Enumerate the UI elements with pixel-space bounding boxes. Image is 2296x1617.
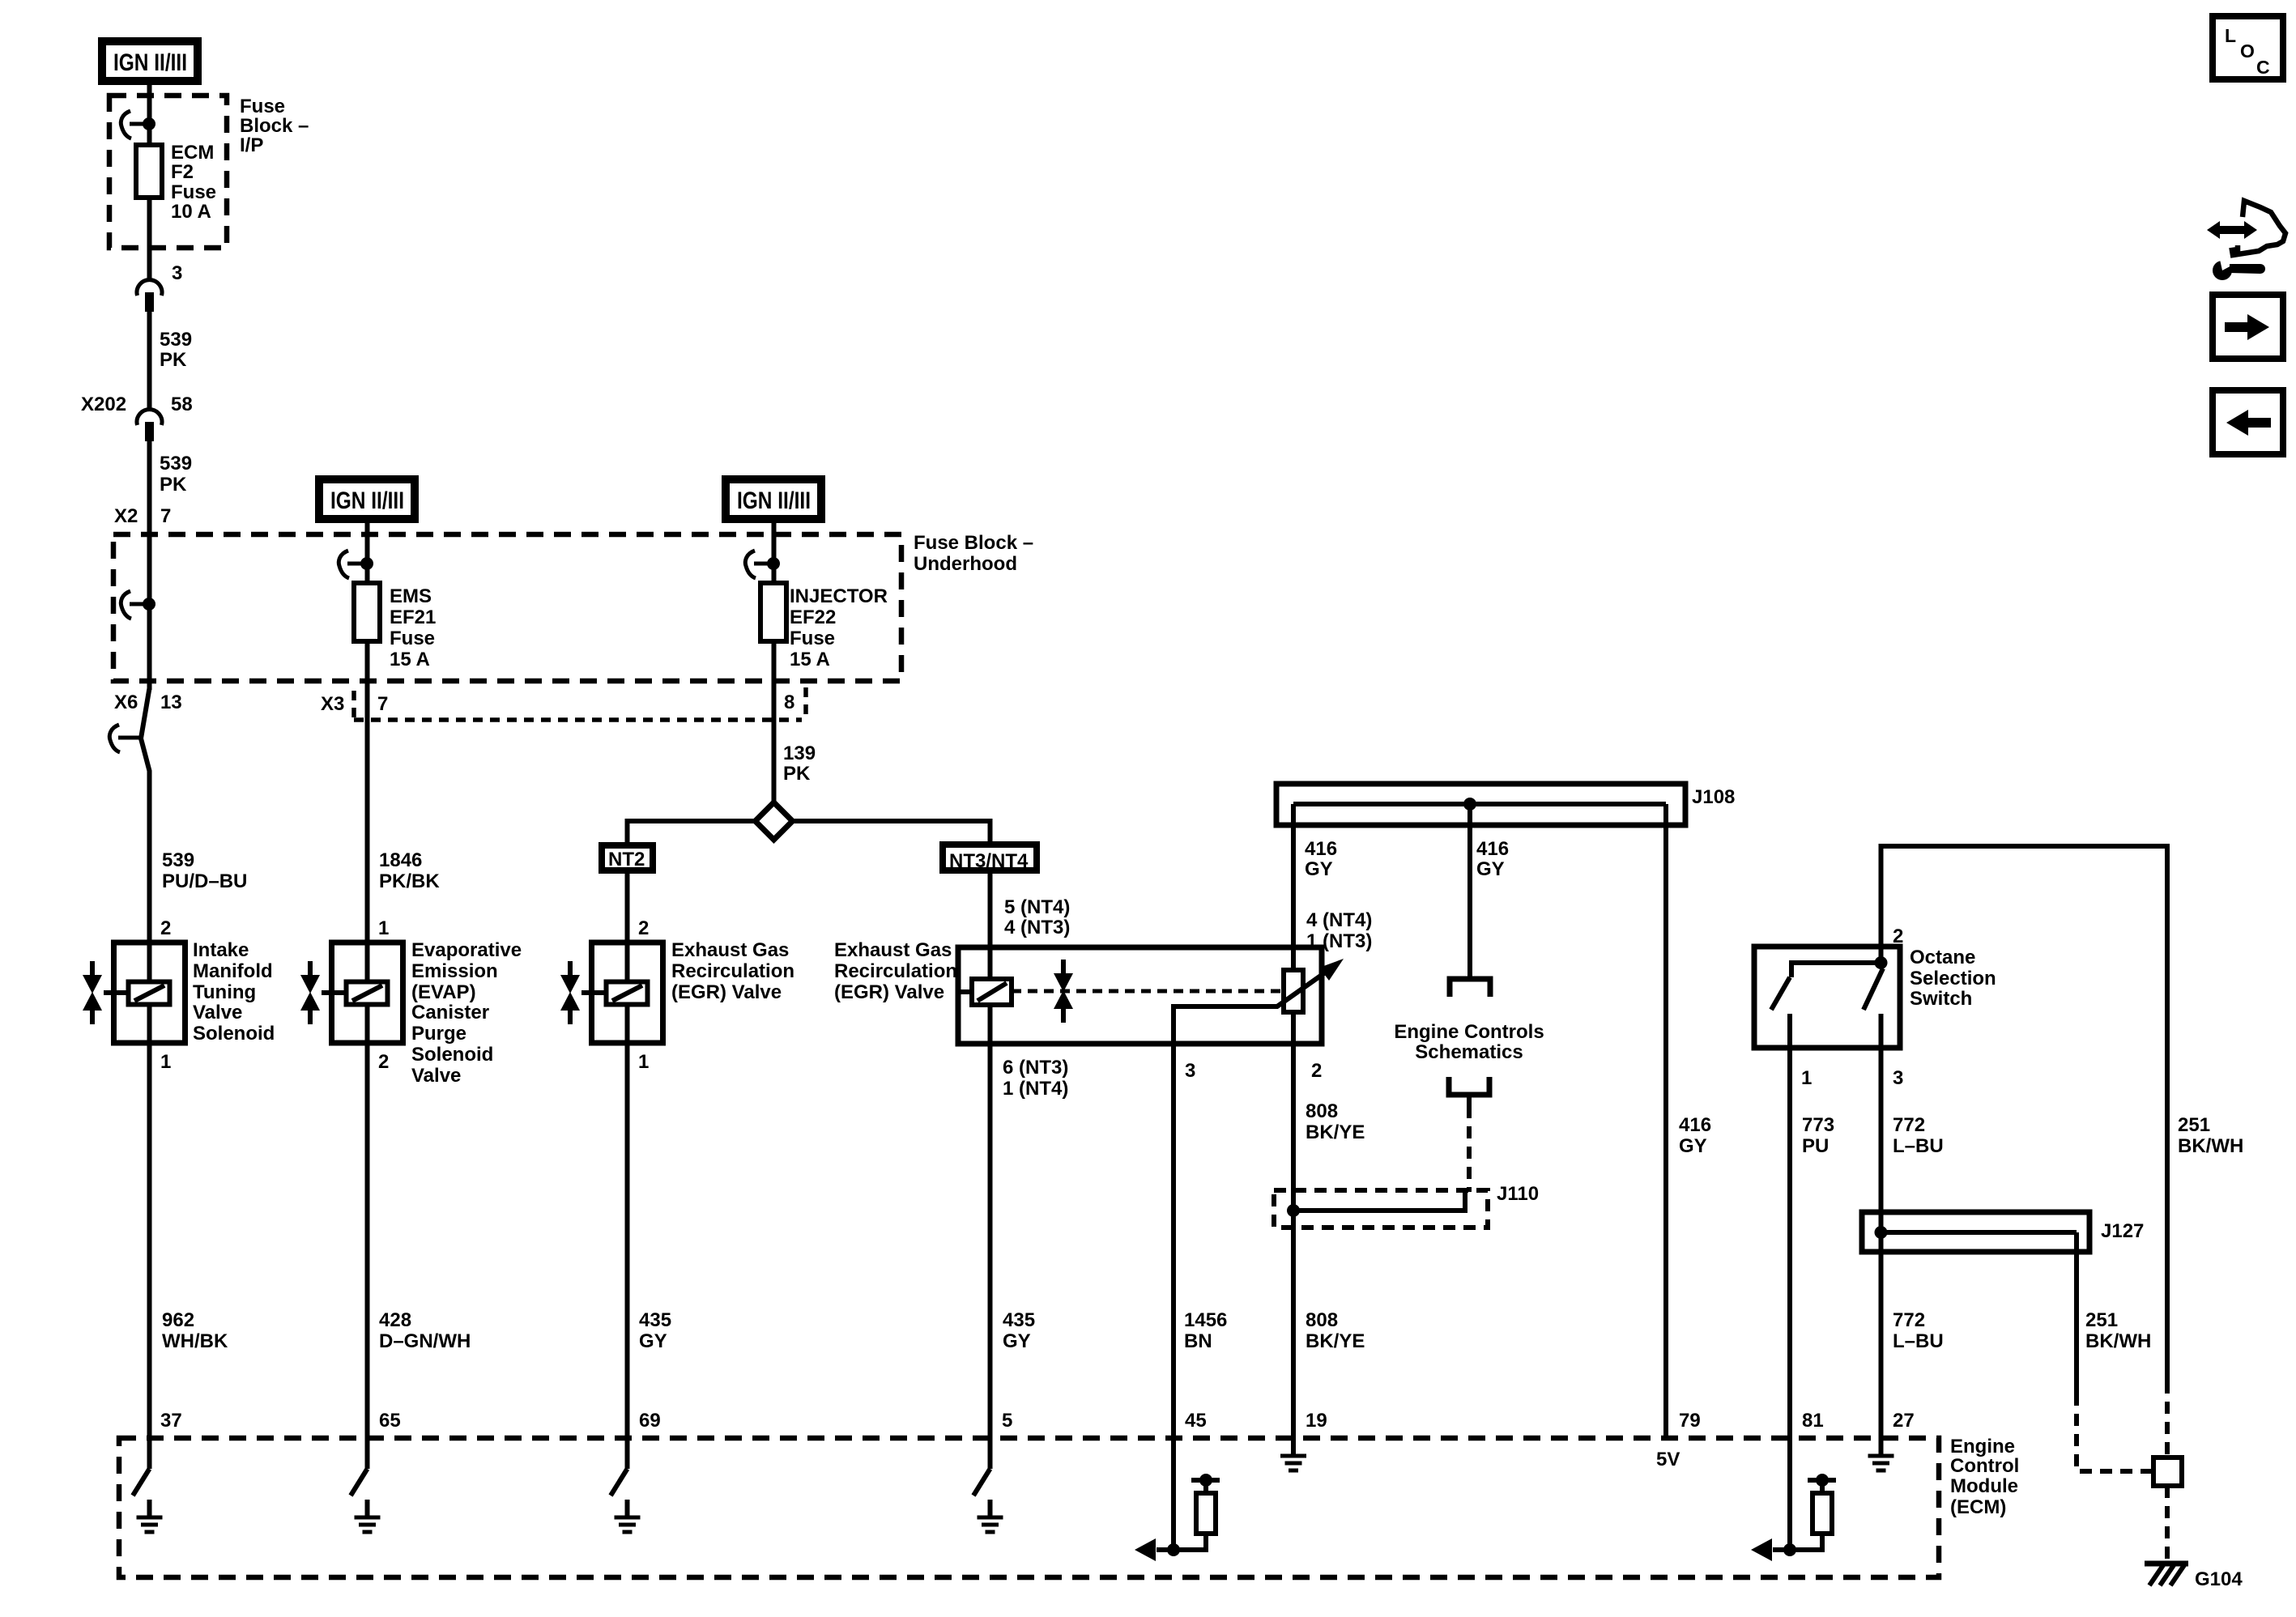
svg-text:J108: J108: [1692, 786, 1735, 808]
svg-text:1: 1: [638, 1051, 649, 1073]
svg-text:7: 7: [377, 693, 388, 715]
svg-text:Schematics: Schematics: [1415, 1041, 1523, 1063]
valve symbol (EGR left): [560, 961, 580, 1024]
wire label 539 PU/D-BU: [162, 849, 247, 892]
coil stub (intake): [104, 990, 130, 995]
svg-text:GY: GY: [639, 1330, 667, 1352]
dashed wire to J110: [1467, 1106, 1472, 1192]
svg-text:PK/BK: PK/BK: [379, 870, 440, 892]
wire NT2 to EGR valve pin 2: [625, 870, 630, 945]
Engine Control Module (ECM) dashed box: [119, 1438, 1939, 1577]
wire kink through X6: [141, 688, 150, 945]
splice diamond: [756, 802, 793, 840]
svg-text:45: 45: [1185, 1410, 1207, 1432]
svg-text:772: 772: [1893, 1114, 1925, 1136]
wire label 962 WH/BK: [162, 1309, 228, 1352]
wire into fuse F2: [147, 96, 152, 147]
svg-text:L–BU: L–BU: [1893, 1135, 1944, 1157]
svg-text:IGN II/III: IGN II/III: [113, 49, 187, 76]
svg-text:Engine Controls: Engine Controls: [1394, 1021, 1544, 1043]
ground splice square: [2153, 1457, 2182, 1486]
svg-text:Recirculation: Recirculation: [671, 960, 794, 982]
svg-text:15 A: 15 A: [390, 649, 430, 670]
octane selection switch box: [1754, 947, 1900, 1048]
svg-text:Solenoid: Solenoid: [411, 1044, 493, 1066]
ECM pin 19 internal ground: [1280, 1438, 1306, 1470]
wire splice to NT2 branch: [628, 821, 756, 845]
EGR valve (left) box: [592, 943, 663, 1043]
svg-text:J127: J127: [2101, 1220, 2144, 1242]
wire label 428 D-GN/WH: [379, 1309, 471, 1352]
adjust icon double arrow: [2207, 221, 2257, 239]
svg-text:(EGR) Valve: (EGR) Valve: [671, 981, 782, 1003]
fuse ECM F2 10A: [136, 145, 162, 198]
octane switch pin 2 riser and top loop wire: [1881, 846, 2168, 1381]
fuse EMS EF21 15A: [354, 583, 380, 641]
wire through intake solenoid down to ECM: [147, 945, 152, 1469]
svg-text:WH/BK: WH/BK: [162, 1330, 228, 1352]
coil (EGR NT3/NT4): [972, 979, 1012, 1005]
svg-text:I/P: I/P: [240, 134, 263, 156]
wire 416 GY from J108 right end down to ECM pin 79: [1663, 804, 1668, 1438]
wire from IGN box 2 into underhood box: [365, 523, 370, 585]
svg-text:F2: F2: [171, 161, 194, 183]
off-page clip (top) to engine controls schematics: [1450, 979, 1490, 997]
svg-text:Underhood: Underhood: [914, 553, 1017, 575]
svg-text:C: C: [2256, 57, 2270, 78]
wire J108 to engine controls schematics clip: [1467, 804, 1472, 978]
svg-text:416: 416: [1476, 838, 1509, 860]
wire splice to NT3/NT4 branch: [793, 821, 990, 845]
svg-text:PU: PU: [1802, 1135, 1829, 1157]
wiper wire from pin 3: [1174, 969, 1330, 1044]
svg-text:962: 962: [162, 1309, 194, 1331]
svg-text:8: 8: [784, 691, 794, 713]
svg-text:EF21: EF21: [390, 606, 436, 628]
wire through EGR (NT3/NT4) coil down to ECM pin 5: [988, 947, 993, 1469]
wiper arrowhead: [1319, 959, 1344, 981]
coil (intake): [129, 982, 170, 1005]
engine controls schematics label: [1394, 1021, 1544, 1063]
wire label 772 L-BU (lower): [1893, 1309, 1944, 1352]
svg-text:251: 251: [2085, 1309, 2118, 1331]
connector X3 pin 7 labels: [321, 693, 388, 715]
valve symbol (EVAP): [300, 961, 320, 1024]
wire label 1456 BN: [1184, 1309, 1227, 1352]
coil stub (EVAP): [322, 990, 347, 995]
splice bus J127: [1862, 1212, 2089, 1252]
ECM pin 81 internal arrow and resistor: [1751, 1474, 1836, 1561]
svg-text:10 A: 10 A: [171, 201, 211, 223]
svg-text:5V: 5V: [1656, 1449, 1680, 1470]
svg-text:2: 2: [160, 917, 171, 939]
svg-text:X6: X6: [114, 691, 138, 713]
svg-text:Control: Control: [1950, 1455, 2019, 1477]
EGR valve (NT3/NT4) box: [958, 947, 1322, 1044]
dashed wire to ground splice square (from J127): [2077, 1394, 2153, 1471]
svg-text:539: 539: [160, 329, 192, 351]
svg-text:INJECTOR: INJECTOR: [790, 585, 888, 607]
splice J110 dashed box: [1274, 1190, 1488, 1228]
ECM pin 37 internal switch blade and ground: [133, 1469, 163, 1532]
svg-text:Recirculation: Recirculation: [834, 960, 957, 982]
svg-text:Purge: Purge: [411, 1023, 466, 1045]
EVAP canister purge solenoid valve box: [332, 943, 403, 1043]
svg-text:5: 5: [1002, 1410, 1012, 1432]
dashed wire square to G104: [2165, 1486, 2170, 1563]
svg-text:PK: PK: [160, 349, 187, 371]
svg-text:2: 2: [378, 1051, 389, 1073]
wire label 773 PU: [1802, 1114, 1834, 1157]
svg-text:79: 79: [1679, 1410, 1701, 1432]
svg-text:15 A: 15 A: [790, 649, 830, 670]
wire from EF21 down through X3 to EVAP: [365, 641, 370, 945]
svg-text:GY: GY: [1476, 858, 1505, 880]
ECM pin 27 internal ground: [1868, 1438, 1894, 1470]
wire label 435 GY (left EGR): [639, 1309, 671, 1352]
svg-text:139: 139: [783, 743, 816, 764]
ECM pin 69 internal switch blade and ground: [611, 1469, 641, 1532]
ECM pin 65 internal switch blade and ground: [351, 1469, 381, 1532]
wire 772 L-BU pin 3 down through J127 to ECM pin 27: [1879, 1048, 1884, 1446]
wire through EGR valve (left) down to ECM: [625, 945, 630, 1469]
svg-text:EF22: EF22: [790, 606, 836, 628]
svg-text:539: 539: [160, 453, 192, 474]
fuse block internal hook (EMS): [339, 551, 373, 578]
svg-text:Canister: Canister: [411, 1002, 489, 1023]
svg-text:J110: J110: [1497, 1183, 1539, 1205]
svg-text:Switch: Switch: [1910, 988, 1972, 1010]
wire from IGN II/III box to Fuse Block I/P: [147, 85, 152, 97]
svg-text:O: O: [2240, 40, 2255, 62]
wire 539 PK (second segment): [147, 441, 152, 690]
X3 connector strip right tick: [803, 687, 808, 717]
EGR valve (left) label: [671, 939, 794, 1003]
svg-text:7: 7: [160, 505, 171, 527]
svg-text:BK/WH: BK/WH: [2178, 1135, 2243, 1157]
off-page reference box IGN II/III (above EMS fuse): [319, 479, 415, 519]
switch blade to pin 1 (open): [1771, 977, 1790, 1010]
svg-text:428: 428: [379, 1309, 411, 1331]
svg-text:Exhaust Gas: Exhaust Gas: [671, 939, 789, 961]
coil (EGR left): [607, 982, 648, 1005]
wire label 435 GY (NT3/NT4): [1003, 1309, 1035, 1352]
wire label 139 PK: [783, 743, 816, 785]
X3 connector strip left tick: [351, 691, 356, 720]
svg-text:BN: BN: [1184, 1330, 1212, 1352]
svg-text:(EVAP): (EVAP): [411, 981, 476, 1003]
wire label 772 L-BU (upper): [1893, 1114, 1944, 1157]
svg-text:Evaporative: Evaporative: [411, 939, 522, 961]
wire label 539 PK: [160, 329, 192, 371]
dashed wire from octane loop to ground splice square: [2165, 1381, 2170, 1456]
switch common bar and junction: [1791, 956, 1888, 977]
dashed actuator link: [1012, 989, 1282, 994]
svg-text:L: L: [2225, 25, 2236, 46]
svg-text:GY: GY: [1679, 1135, 1707, 1157]
svg-text:Block –: Block –: [240, 115, 309, 137]
svg-text:PK: PK: [160, 474, 187, 496]
svg-text:65: 65: [379, 1410, 401, 1432]
J110 internal bus: [1287, 1192, 1465, 1217]
octane selection switch label: [1910, 947, 1996, 1010]
svg-text:5 (NT4): 5 (NT4): [1004, 896, 1070, 918]
svg-text:Fuse Block –: Fuse Block –: [914, 532, 1033, 554]
connector X202 pin 58 labels: [81, 394, 193, 415]
intake solenoid label: [193, 939, 275, 1045]
connector X2 pin 7 labels: [114, 505, 171, 527]
svg-text:EMS: EMS: [390, 585, 432, 607]
svg-text:L–BU: L–BU: [1893, 1330, 1944, 1352]
adjust icon wrench: [2213, 256, 2265, 280]
svg-text:Fuse: Fuse: [171, 181, 216, 203]
wire from fuse F2 down to connector pin 3: [147, 198, 152, 282]
switch blade to pin 3 (open): [1864, 968, 1883, 1010]
wire label 251 BK/WH (lower): [2085, 1309, 2151, 1352]
EVAP solenoid label: [411, 939, 522, 1087]
pin labels 4 (NT4) 1 (NT3): [1306, 909, 1372, 952]
forward arrow box: [2213, 295, 2283, 359]
ground G104 symbol: [2145, 1564, 2188, 1585]
fuse block internal hook (INJECTOR): [745, 551, 780, 578]
wire NT3/NT4 to EGR valve pin 5/4: [988, 870, 993, 947]
valve symbol (intake): [83, 961, 102, 1024]
fuse block I/P label: [240, 96, 309, 156]
svg-text:ECM: ECM: [171, 142, 214, 164]
svg-text:PU/D–BU: PU/D–BU: [162, 870, 247, 892]
net label box NT2: [602, 845, 653, 870]
svg-text:X3: X3: [321, 693, 344, 715]
svg-text:IGN II/III: IGN II/III: [737, 487, 811, 514]
svg-text:435: 435: [639, 1309, 671, 1331]
back arrow box: [2213, 390, 2283, 454]
svg-text:Solenoid: Solenoid: [193, 1023, 275, 1045]
LOC legend box: [2213, 16, 2283, 79]
fuse F2 label: [171, 142, 216, 223]
X6 exit hook: [109, 725, 139, 752]
svg-text:4 (NT3): 4 (NT3): [1004, 917, 1070, 938]
svg-text:37: 37: [160, 1410, 182, 1432]
pin 1 terminal stub: [1787, 1014, 1792, 1048]
svg-text:69: 69: [639, 1410, 661, 1432]
svg-text:(EGR) Valve: (EGR) Valve: [834, 981, 944, 1003]
svg-text:(ECM): (ECM): [1950, 1496, 2006, 1518]
svg-text:X2: X2: [114, 505, 138, 527]
svg-text:1 (NT3): 1 (NT3): [1306, 930, 1372, 952]
svg-text:808: 808: [1306, 1309, 1338, 1331]
fuse EF21 label: [390, 585, 436, 670]
svg-text:Octane: Octane: [1910, 947, 1975, 968]
pin labels 5 (NT4) 4 (NT3): [1004, 896, 1070, 938]
svg-text:58: 58: [171, 394, 193, 415]
svg-text:Valve: Valve: [411, 1065, 461, 1087]
fuse block internal switch hook: [121, 111, 155, 138]
svg-text:BK/YE: BK/YE: [1306, 1121, 1365, 1143]
svg-text:D–GN/WH: D–GN/WH: [379, 1330, 471, 1352]
coil (EVAP): [347, 982, 388, 1005]
svg-text:Engine: Engine: [1950, 1436, 2015, 1457]
svg-text:772: 772: [1893, 1309, 1925, 1331]
svg-text:BK/WH: BK/WH: [2085, 1330, 2151, 1352]
wire from EF22 down to splice diamond: [772, 641, 777, 804]
svg-text:416: 416: [1679, 1114, 1711, 1136]
ECM label: [1950, 1436, 2019, 1518]
fuse block underhood label: [914, 532, 1033, 575]
ECM pin 5 internal switch blade and ground: [973, 1469, 1003, 1532]
svg-text:1: 1: [378, 917, 389, 939]
svg-text:Manifold: Manifold: [193, 960, 273, 982]
wire label 1846 PK/BK: [379, 849, 440, 892]
wire 539 PK: [147, 312, 152, 411]
svg-text:GY: GY: [1305, 858, 1333, 880]
svg-text:Fuse: Fuse: [790, 628, 835, 649]
wire label 251 BK/WH (right drop): [2178, 1114, 2243, 1157]
svg-text:435: 435: [1003, 1309, 1035, 1331]
svg-text:Selection: Selection: [1910, 968, 1996, 989]
wire from IGN box 3 into underhood box: [772, 523, 777, 585]
coil stub (EGR NT3/NT4): [961, 989, 973, 994]
svg-text:3: 3: [1893, 1067, 1903, 1089]
svg-text:19: 19: [1306, 1410, 1327, 1432]
svg-text:G104: G104: [2195, 1568, 2243, 1590]
svg-text:251: 251: [2178, 1114, 2210, 1136]
net label box NT3/NT4: [943, 845, 1037, 872]
svg-text:13: 13: [160, 691, 182, 713]
svg-text:4 (NT4): 4 (NT4): [1306, 909, 1372, 931]
wire label 416 GY (left J108 drop): [1305, 838, 1337, 880]
svg-text:NT3/NT4: NT3/NT4: [949, 850, 1029, 872]
svg-text:Fuse: Fuse: [390, 628, 435, 649]
svg-text:Valve: Valve: [193, 1002, 242, 1023]
adjust icon hand outline: [2232, 201, 2285, 255]
off-page clip (bottom) from engine controls schematics: [1449, 1077, 1489, 1106]
svg-text:416: 416: [1305, 838, 1337, 860]
svg-text:2: 2: [638, 917, 649, 939]
fuse INJECTOR EF22 15A: [760, 583, 786, 641]
fuse block internal hook (column 1): [121, 591, 155, 619]
Fuse Block - Underhood dashed box: [113, 534, 901, 681]
J127 right branch wire 251 BK/WH: [2074, 1232, 2079, 1394]
wire 773 PU pin 1 down to ECM pin 81: [1787, 1048, 1792, 1550]
svg-text:1456: 1456: [1184, 1309, 1227, 1331]
svg-text:Tuning: Tuning: [193, 981, 256, 1003]
wire label 808 BK/YE (lower): [1306, 1309, 1365, 1352]
off-page reference box IGN II/III (above injector fuse): [726, 479, 821, 519]
in-line connector X202: [137, 410, 162, 441]
svg-text:2: 2: [1311, 1060, 1322, 1082]
svg-text:1 (NT4): 1 (NT4): [1003, 1078, 1068, 1100]
ECM pin 45 internal arrow and resistor: [1135, 1474, 1220, 1561]
pin 3 terminal stub: [1879, 1014, 1884, 1048]
valve symbol (EGR NT3/NT4, on dashed link): [1054, 960, 1073, 1023]
wire label 416 GY (right drop): [1679, 1114, 1711, 1157]
svg-text:NT2: NT2: [608, 849, 645, 870]
fuse EF22 label: [790, 585, 888, 670]
Fuse Block - I/P dashed box: [109, 96, 227, 248]
X3 connector strip line: [354, 717, 802, 722]
wire label 416 GY (middle J108 drop): [1476, 838, 1509, 880]
intake manifold tuning valve solenoid box: [114, 943, 185, 1043]
svg-text:X202: X202: [81, 394, 126, 415]
svg-text:773: 773: [1802, 1114, 1834, 1136]
wire through EVAP solenoid down to ECM: [365, 945, 370, 1469]
wire pin 3 down to ECM pin 45: [1171, 1044, 1176, 1550]
svg-text:3: 3: [1185, 1060, 1195, 1082]
wire label 539 PK second: [160, 453, 192, 496]
EGR valve (NT3/NT4) label: [834, 939, 957, 1003]
pin labels 6 (NT3) 1 (NT4): [1003, 1057, 1068, 1100]
svg-text:808: 808: [1306, 1100, 1338, 1122]
wire 416 GY from J108 into potentiometer: [1291, 804, 1296, 1455]
potentiometer element: [1284, 970, 1303, 1012]
svg-text:539: 539: [162, 849, 194, 871]
svg-text:GY: GY: [1003, 1330, 1031, 1352]
svg-text:BK/YE: BK/YE: [1306, 1330, 1365, 1352]
svg-text:81: 81: [1802, 1410, 1824, 1432]
svg-text:Intake: Intake: [193, 939, 249, 961]
svg-text:Exhaust Gas: Exhaust Gas: [834, 939, 952, 961]
connector X6 pin 13 labels: [114, 691, 182, 713]
svg-text:IGN II/III: IGN II/III: [330, 487, 404, 514]
svg-text:27: 27: [1893, 1410, 1915, 1432]
svg-text:Fuse: Fuse: [240, 96, 285, 117]
splice bus J108: [1276, 784, 1685, 825]
svg-text:Emission: Emission: [411, 960, 498, 982]
svg-text:3: 3: [172, 262, 182, 284]
svg-text:6 (NT3): 6 (NT3): [1003, 1057, 1068, 1079]
in-line connector (pin 3): [137, 280, 162, 312]
svg-text:1: 1: [160, 1051, 171, 1073]
svg-text:1846: 1846: [379, 849, 422, 871]
coil stub (EGR left): [581, 990, 607, 995]
svg-text:1: 1: [1801, 1067, 1812, 1089]
wire label 808 BK/YE (upper): [1306, 1100, 1365, 1143]
off-page reference box IGN II/III (top left): [102, 41, 198, 81]
svg-text:PK: PK: [783, 763, 811, 785]
svg-text:Module: Module: [1950, 1475, 2018, 1497]
